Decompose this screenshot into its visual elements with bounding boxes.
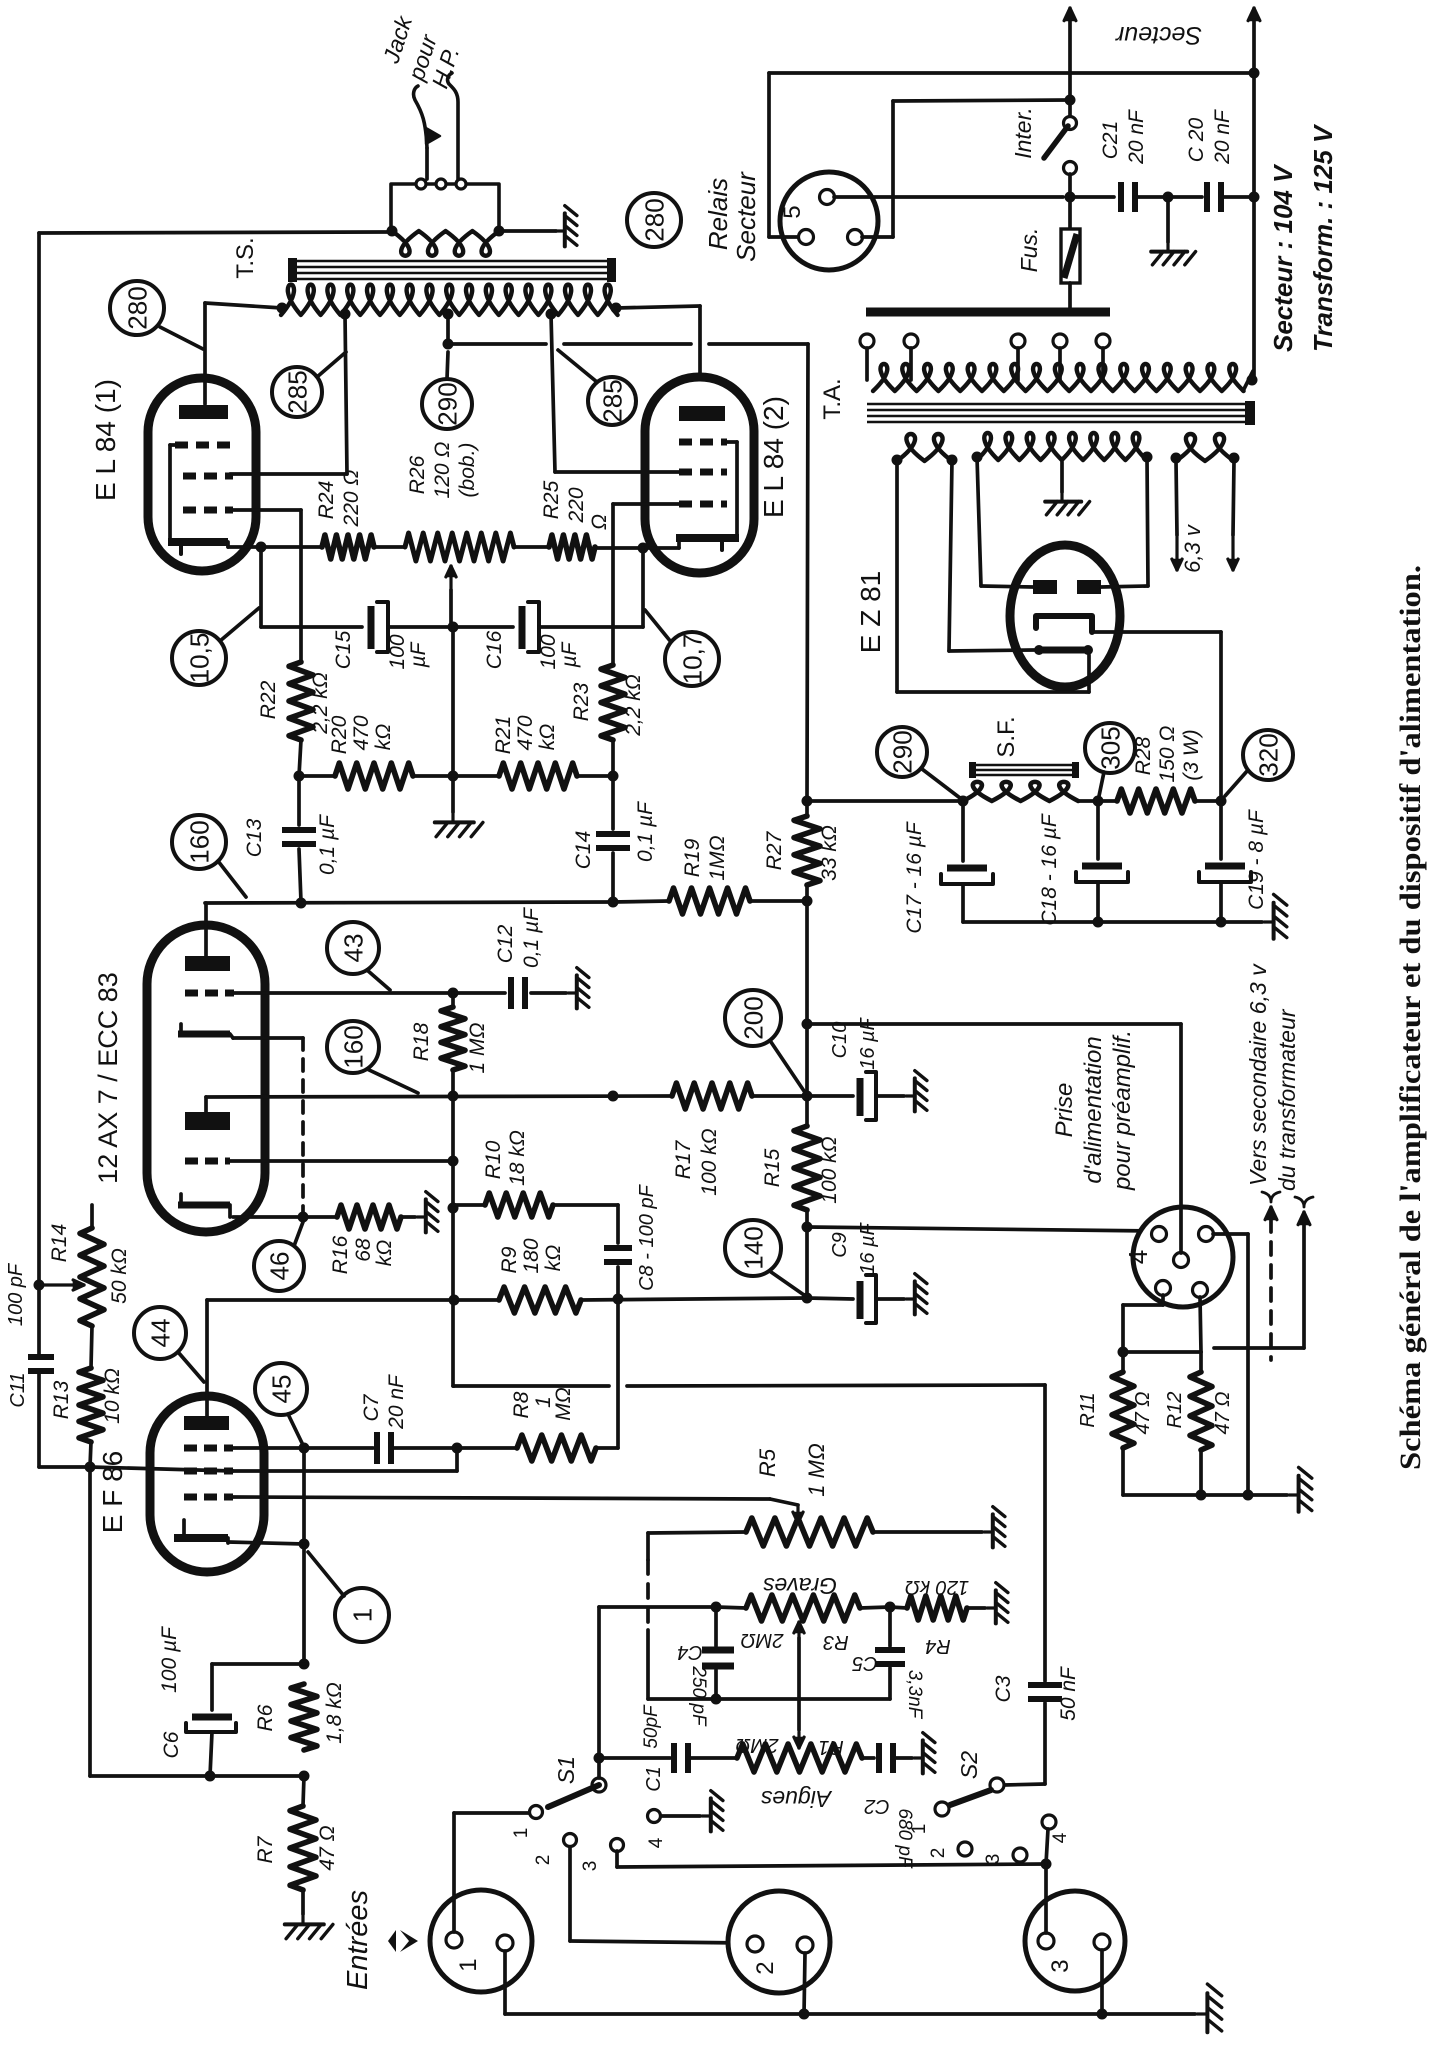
EL84(2) anode [679,406,725,421]
svg-text:C10: C10 [829,1022,851,1059]
svg-text:10 kΩ: 10 kΩ [101,1368,124,1424]
wire wiper rail down to ground [451,627,455,776]
S1 contact 4 to ground [648,1810,661,1823]
wire XLR1 ground pin to bus [503,1951,507,2014]
node label 200 [725,990,781,1046]
svg-text:305: 305 [1095,726,1125,769]
svg-text:C15: C15 [332,630,355,669]
svg-text:2MΩ: 2MΩ [741,1629,785,1651]
node label 280 (left) [110,281,164,335]
svg-text:C13: C13 [243,818,266,857]
node label 46 [254,1241,304,1291]
R3 wiper to R1 wiper link [797,1622,800,1638]
resistor R21 470 kΩ [453,774,499,778]
svg-text:470: 470 [350,715,373,750]
svg-text:R6: R6 [254,1704,277,1731]
ground speaker line [499,229,556,233]
primary winding of T.S. [281,285,618,315]
wire B+ 290V rail from T.S. centre tap to filter [446,314,450,344]
capacitor C6 100 µF electrolytic [212,1662,304,1666]
svg-text:50 nF: 50 nF [1057,1666,1080,1721]
svg-text:1 MΩ: 1 MΩ [466,1022,489,1073]
svg-text:R7: R7 [254,1835,277,1863]
wire cathode left down to C15 rail [259,547,263,627]
svg-text:C14: C14 [572,831,595,870]
svg-text:47 Ω: 47 Ω [1212,1391,1234,1434]
svg-text:285: 285 [282,370,312,413]
ground of R7 [285,1914,333,1939]
node label 290 (filter) [877,727,927,777]
node label 140 [725,1220,781,1276]
svg-text:12 AX 7 / ECC 83: 12 AX 7 / ECC 83 [93,972,123,1184]
resistor R12 47 Ω [1199,1352,1203,1372]
svg-text:1: 1 [909,1824,930,1835]
capacitor C17 16 µF electrolytic [961,801,965,861]
svg-text:C4: C4 [677,1641,703,1663]
resistor R10 18 kΩ [453,1203,485,1207]
node label 44 [134,1307,186,1359]
svg-text:E L 84 (2): E L 84 (2) [758,396,789,518]
wire tone feed line to C3 [454,1384,609,1388]
svg-text:1MΩ: 1MΩ [706,835,729,880]
wire XLR3 pin to bus [1044,1864,1048,1933]
wire relay pins [769,235,798,239]
EZ81 cathode [1036,616,1092,632]
svg-text:Secteur: Secteur [731,171,761,262]
capacitor C14 0,1 µF [611,776,615,829]
wire R9 row (anode EF86 to 140 node) [207,1298,454,1302]
ground input bus [1197,1984,1222,2032]
wire tone bottom rail [648,1697,890,1701]
resistor R28 150 Ω (3W) [1098,799,1117,803]
svg-text:Vers secondaire 6,3 v: Vers secondaire 6,3 v [1245,963,1271,1186]
svg-text:220 Ω: 220 Ω [340,470,363,528]
input arrow [388,1930,396,1952]
svg-text:47 Ω: 47 Ω [1132,1391,1154,1434]
6,3V arrows [1176,461,1177,535]
arrow Secteur mains 2 [1252,6,1255,9]
output transformer T.S. core [296,260,608,263]
XLR input socket 1 [430,1890,532,1992]
svg-text:S.F.: S.F. [993,716,1020,757]
wire S1 common to C1 [599,1756,670,1760]
svg-text:kΩ: kΩ [542,1245,565,1272]
wire EF86 g1 row to R5 wiper [233,1497,770,1499]
wire column R19 node down to 200 node [805,901,809,1096]
capacitor C2 680 pF [862,1756,874,1760]
resistor R17 100 kΩ [672,1083,752,1109]
jack pour H.P. contacts [425,148,429,179]
svg-text:680 pF: 680 pF [894,1808,915,1869]
wire R5 left end down to bottom tone rail (dashed) [646,1533,650,1560]
S2 contact 1 [935,1802,949,1816]
resistor R8 1 MΩ [457,1446,517,1450]
svg-text:R1: R1 [818,1736,844,1758]
wire input 3 bus [617,1864,1046,1867]
node label 160 (anode rail) [172,815,226,869]
12AX7 grid 1 dashes [185,990,198,997]
svg-text:C18 - 16 µF: C18 - 16 µF [1038,813,1061,925]
svg-text:180: 180 [520,1238,543,1273]
svg-text:2: 2 [928,1848,949,1859]
svg-text:3: 3 [983,1854,1004,1865]
svg-text:Prise: Prise [1051,1083,1078,1138]
svg-text:10,5: 10,5 [184,633,214,684]
capacitor C18 16 µF electrolytic [1096,801,1100,859]
capacitor C1 50 pF [671,1743,677,1773]
svg-text:T.S.: T.S. [232,237,259,278]
svg-text:320: 320 [1253,733,1283,776]
wire XLR2 ground pin [804,1953,805,2015]
svg-text:2: 2 [533,1855,554,1866]
wire mains to T.A. right end [1252,197,1256,378]
taps on T.S. primary [340,309,351,320]
potentiometer R5 1 MΩ volume [796,1505,799,1523]
svg-text:47 Ω: 47 Ω [316,1825,339,1870]
svg-text:1,8 kΩ: 1,8 kΩ [323,1682,346,1744]
wire R11/R12 top rail [1123,1350,1201,1354]
EF86 anode [184,1416,229,1430]
node label 10,5 [172,631,226,685]
svg-text:R14: R14 [48,1224,71,1263]
wire 200V line to socket [807,1022,1181,1026]
EL84(1) grid dashes [175,442,188,449]
svg-text:Secteur: Secteur [1114,21,1202,49]
svg-text:R18: R18 [410,1022,433,1061]
wire bottom-left pin to R11 rail [1161,1295,1165,1305]
capacitor C9 16 µF electrolytic [807,1298,853,1299]
resistor R4 120 kΩ [907,1596,967,1620]
svg-text:20 nF: 20 nF [1211,109,1234,165]
wire R24 to R26 to R25 [374,545,405,549]
svg-text:R11: R11 [1077,1392,1099,1427]
node label 285 (right) [588,377,636,425]
capacitor C7 20 nF [374,1432,380,1464]
capacitor C12 0,1 µF [453,991,505,995]
wire 12AX7 anode-2 row to R17 [206,1096,672,1097]
node label 1 [335,1588,389,1642]
svg-text:200: 200 [738,996,768,1039]
svg-text:4: 4 [1050,1832,1071,1843]
resistor R20 470 kΩ [299,774,335,778]
potentiometer R3 2 MΩ graves [746,1595,860,1621]
capacitor C4 250 pF [714,1607,718,1646]
wire XLR3 ground pin [1100,1950,1104,2014]
wire EF86 g2 row join C7 node [233,1469,457,1473]
svg-text:C12: C12 [494,924,517,963]
transformer T.A. primary bar [866,308,1110,317]
resistor R27 33 kΩ [805,801,809,816]
svg-text:µF: µF [407,641,430,668]
T.A. 6,3V winding [1176,434,1234,461]
svg-text:C2: C2 [864,1795,890,1817]
resistor R15 100 kΩ [805,1096,809,1126]
svg-text:(bob.): (bob.) [456,443,479,498]
svg-text:MΩ: MΩ [552,1387,575,1420]
svg-text:220: 220 [565,487,588,523]
wire XLR1 pin to S1 contact 1 [452,1813,456,1932]
svg-text:290: 290 [432,382,462,425]
ground of cathode network [451,776,455,812]
svg-text:R8: R8 [510,1391,533,1418]
svg-text:10,7: 10,7 [677,634,707,685]
wire heater ground rail [1123,1493,1287,1497]
node R3/C4 top [711,1602,722,1613]
wire 5V right to filament [949,460,952,651]
wire 140V line to socket [807,1227,1152,1231]
relay socket 5 [780,172,878,270]
svg-text:Relais: Relais [703,178,733,250]
tube EL84(2) [645,377,754,573]
resistor R23 2,2 kΩ [601,665,625,740]
capacitor C10 16 µF electrolytic [807,1094,853,1098]
svg-text:250 pF: 250 pF [688,1665,709,1727]
node label 10,7 [665,632,719,686]
svg-text:C1: C1 [643,1766,665,1792]
svg-text:R19: R19 [681,838,704,877]
wire tap to EL84(2) screen g2 [551,314,555,472]
svg-text:2,2 kΩ: 2,2 kΩ [622,674,645,737]
svg-text:6,3 v: 6,3 v [1180,523,1205,573]
wire EL84(2) g1 down to R23 [613,502,679,506]
node label 45 [255,1363,307,1415]
node label 320 [1243,730,1293,780]
svg-text:18 kΩ: 18 kΩ [506,1130,529,1186]
wire top-right pin to heater return [1213,1232,1248,1236]
svg-text:d'alimentation: d'alimentation [1080,1036,1107,1183]
svg-text:R17: R17 [672,1139,695,1179]
wire EL84(1) cathode to R24 [228,545,322,549]
svg-text:44: 44 [145,1319,175,1348]
svg-text:2MΩ: 2MΩ [736,1734,780,1756]
svg-text:pour préamplif.: pour préamplif. [1109,1030,1136,1191]
node R23/R21/C14 [608,771,619,782]
svg-text:R21: R21 [492,716,515,755]
resistor R18 1 MΩ [451,993,455,1007]
svg-text:120 Ω: 120 Ω [431,442,454,499]
svg-text:1 MΩ: 1 MΩ [804,1443,829,1496]
wire R18 column down / tone feed column [451,1096,455,1386]
svg-text:R24: R24 [315,481,338,520]
svg-text:R16: R16 [329,1235,352,1274]
tube EZ81 [1010,545,1120,687]
resistor R13 10 kΩ [79,1368,103,1442]
wire mains row [834,195,1063,199]
wire EF86 cathode down to R6 [302,1544,306,1664]
svg-text:Aigues: Aigues [760,1786,833,1812]
svg-text:kΩ: kΩ [372,724,395,751]
socket 4 (octal) [1133,1207,1233,1307]
svg-text:1: 1 [347,1608,377,1622]
svg-text:4: 4 [646,1837,667,1848]
svg-text:C16: C16 [483,630,506,669]
svg-text:R25: R25 [540,480,563,519]
wire HT right to EZ81 anode [1147,457,1148,586]
svg-text:2: 2 [752,1961,779,1974]
svg-text:160: 160 [338,1025,368,1068]
svg-text:kΩ: kΩ [536,724,559,751]
wire 200V into centre pin [1179,1024,1183,1253]
resistor R22 2,2 kΩ [289,662,313,740]
svg-text:100 kΩ: 100 kΩ [698,1128,721,1195]
capacitor C3 50 nF [1028,1682,1062,1688]
svg-text:R22: R22 [257,680,280,719]
node R17/R15/C10 junction [802,1091,813,1102]
svg-text:Transform. : 125 V: Transform. : 125 V [1308,123,1338,352]
svg-text:0,1 µF: 0,1 µF [520,907,543,968]
ground heater rail [1289,1467,1312,1511]
wire feedback line from speaker to R14/C11 (left border) [37,233,41,1357]
svg-text:R23: R23 [570,682,593,721]
svg-text:470: 470 [514,715,537,750]
12AX7 anode 2 [185,1112,230,1130]
wire HT left to EZ81 anode [977,457,981,586]
resistor R24 220 Ω [322,535,374,559]
svg-text:16 µF: 16 µF [857,1221,879,1274]
arrow Secteur mains 1 [1068,6,1071,9]
S2 contact 3 [1013,1848,1027,1862]
svg-text:C5: C5 [851,1652,877,1674]
wire input ground bus [505,2012,1195,2016]
node label 285 (left) [272,367,322,417]
svg-text:E L 84 (1): E L 84 (1) [90,379,121,501]
svg-text:C11: C11 [7,1372,29,1407]
svg-text:100 µF: 100 µF [158,1626,181,1693]
resistor R25 220 Ω [549,535,595,559]
svg-text:140: 140 [738,1226,768,1269]
svg-text:Schéma général de l'amplifi: Schéma général de l'amplificateur et du … [1394,565,1427,1470]
svg-text:R15: R15 [761,1148,784,1187]
node R14 wiper junction [34,1280,45,1291]
svg-text:120 kΩ: 120 kΩ [905,1576,969,1598]
svg-text:R27: R27 [763,830,786,870]
wire C8 column down to R8 [616,1300,620,1448]
T.A. primary winding [873,364,1244,391]
svg-text:C3: C3 [992,1675,1015,1702]
capacitor C20 20 nF [1168,195,1202,199]
svg-text:R5: R5 [755,1448,780,1477]
svg-text:R4: R4 [925,1635,951,1657]
wire EL84(1) g1 down to R22 [230,508,301,512]
potentiometer R14 50 kΩ [90,1205,94,1228]
svg-text:3: 3 [1047,1959,1074,1972]
svg-text:Entrées: Entrées [342,1890,374,1990]
svg-text:150 Ω: 150 Ω [1156,726,1179,783]
EF86 grid dashes rows [184,1445,197,1452]
svg-text:µF: µF [558,641,581,668]
svg-text:285: 285 [597,379,627,422]
switch Inter. [1064,117,1077,130]
EL84(2) g3-cathode tie and cathode [727,440,737,444]
svg-text:5: 5 [779,205,806,218]
svg-text:16 µF: 16 µF [857,1016,879,1069]
12AX7 cathode 2 [179,1194,183,1205]
capacitor C19 8 µF electrolytic [1219,801,1223,859]
svg-text:50 kΩ: 50 kΩ [108,1248,131,1304]
svg-text:0,1 µF: 0,1 µF [634,801,657,862]
wire g3 to cathode tie [302,1448,306,1544]
node C15/C16/wiper rail [448,622,459,633]
svg-text:100: 100 [537,634,560,669]
svg-text:160: 160 [184,820,214,863]
EL84(1) anode [179,405,228,419]
svg-text:R9: R9 [498,1246,521,1273]
svg-text:45: 45 [266,1375,296,1404]
svg-text:20 nF: 20 nF [1125,109,1148,165]
capacitor C5 3,3 nF [888,1607,892,1646]
wire tone feed down (C3 branch) [1043,1385,1047,1681]
capacitor C16 100 µF electrolytic [453,625,513,629]
wire g2 node down to cathode rail [88,1467,92,1776]
output transformer T.S. secondary box [391,184,499,231]
svg-text:T.A.: T.A. [819,378,846,419]
svg-text:1: 1 [511,1828,532,1839]
ground of R16 [417,1192,438,1233]
node label 160 (second) [327,1021,379,1073]
wire EZ81 cathode B+ output [1092,630,1221,634]
12AX7 grid 2 dashes [185,1158,198,1165]
T.A. primary taps [860,334,874,348]
svg-text:280: 280 [122,286,152,329]
EZ81 anode plates [1033,580,1057,594]
EL84(1) g3-cathode tie and cathode [170,443,175,447]
wire bottom-right pin down to rail [1200,1297,1201,1352]
svg-text:290: 290 [887,730,917,773]
wire speaker return (top) [39,232,392,233]
EF86 cathode [182,1520,186,1538]
resistor R16 68 kΩ [337,1205,401,1229]
wire mains top link [769,71,1254,75]
svg-text:100 pF: 100 pF [5,1262,27,1326]
svg-text:R10: R10 [482,1140,505,1179]
T.A. core [867,403,1246,406]
svg-text:E Z 81: E Z 81 [855,571,886,653]
svg-text:1: 1 [455,1958,482,1971]
EZ81 filament [1041,647,1086,654]
svg-text:Fus.: Fus. [1016,228,1042,273]
resistor R9 180 kΩ [454,1298,499,1302]
svg-text:C7: C7 [360,1393,383,1421]
12AX7 anode 1 [185,956,230,971]
wire EL84(2) cathode to R25 [595,546,679,550]
svg-text:C8 - 100 pF: C8 - 100 pF [636,1183,658,1290]
svg-text:3,3nF: 3,3nF [904,1670,925,1720]
node label 290 [422,379,472,429]
svg-text:3: 3 [580,1861,601,1872]
resistor R6 1,8 kΩ [291,1684,317,1750]
svg-text:46: 46 [264,1252,294,1281]
svg-text:R26: R26 [406,455,429,494]
capacitor C13 0,1 µF [297,776,301,825]
wire filter output row [807,799,963,803]
XLR input socket 3 [1025,1891,1125,1991]
choke S.F. core [975,764,1073,767]
svg-text:C 20: C 20 [1185,118,1208,163]
wire R15 bottom to 140 node [805,1227,809,1298]
wire inter to mains node [1068,174,1072,197]
svg-text:R3: R3 [823,1631,849,1653]
svg-text:R13: R13 [50,1380,73,1419]
svg-text:(3 W): (3 W) [1180,729,1203,780]
wire EL84(1) anode to T.S. left end [203,303,207,404]
brace arrow 1 (dashed) 6,3V [1269,1205,1272,1208]
node label 305 [1085,723,1135,773]
svg-text:33 kΩ: 33 kΩ [818,825,841,881]
svg-text:C19 - 8 µF: C19 - 8 µF [1245,809,1268,910]
wire cathode right down to C16 rail [641,548,645,627]
node label 43 [327,922,379,974]
svg-text:kΩ: kΩ [373,1240,396,1267]
